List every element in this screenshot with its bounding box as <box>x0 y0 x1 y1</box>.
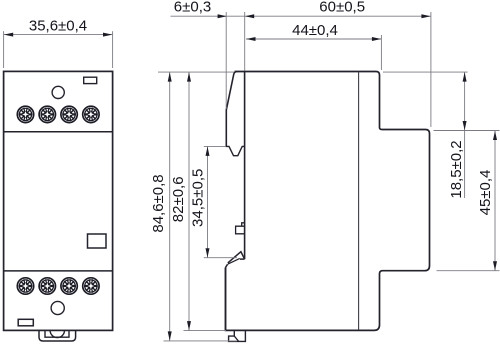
arrow 84,6 top <box>168 72 172 81</box>
bottom screw terminal 3 <box>61 278 77 294</box>
extension line side top right <box>383 71 468 73</box>
dimension line top <box>171 15 431 17</box>
arrow 44 left <box>246 37 255 41</box>
arrow 45 bottom <box>493 261 497 270</box>
svg-text:84,6±0,8: 84,6±0,8 <box>150 174 167 232</box>
extension line claw rear <box>225 12 227 109</box>
side bottom DIN clip diagonal <box>234 336 238 341</box>
front view upper separator line <box>4 131 113 133</box>
svg-text:34,5±0,5: 34,5±0,5 <box>190 169 207 227</box>
front bottom DIN clip outer <box>39 330 76 341</box>
svg-text:60±0,5: 60±0,5 <box>319 0 365 16</box>
extension line side bottom 82 <box>184 330 227 332</box>
svg-text:35,6±0,4: 35,6±0,4 <box>29 17 87 34</box>
svg-text:82±0,6: 82±0,6 <box>170 176 187 222</box>
spring clip tail jog <box>226 264 228 267</box>
dimension line 45 <box>494 131 496 271</box>
extension line 44 right <box>380 35 382 70</box>
extension line step lower <box>437 270 500 272</box>
extension line step upper <box>434 130 500 132</box>
arrow 6 right / 60 left (pointing left) <box>245 14 254 18</box>
svg-text:18,5±0,2: 18,5±0,2 <box>448 140 465 198</box>
arrow 18,5 top <box>463 72 467 81</box>
arrow 6 left (outside, pointing right) <box>218 14 227 18</box>
extension line 34,5 top <box>204 145 226 147</box>
extension line side bottom 84,6 <box>164 340 238 342</box>
interior parting line <box>358 72 360 330</box>
extension line side top left <box>158 71 234 73</box>
top indicator circle <box>52 86 64 98</box>
extension line 60 right <box>430 12 432 127</box>
extension line body left face <box>244 12 246 71</box>
svg-text:44±0,4: 44±0,4 <box>292 22 338 39</box>
extension line 34,5 bottom <box>204 257 237 259</box>
bottom screw terminal 2 <box>39 278 55 294</box>
arrow 18,5 bottom <box>463 121 467 130</box>
side lower-left edge <box>225 268 227 331</box>
bottom indicator circle <box>51 301 64 314</box>
bottom screw terminal 1 <box>17 278 33 294</box>
spring clip junction tick <box>240 258 245 260</box>
svg-text:45±0,4: 45±0,4 <box>477 170 494 216</box>
arrow left 35,6 <box>4 33 13 37</box>
release tab rectangle <box>236 226 245 234</box>
claw notch <box>226 146 245 155</box>
bottom screw terminal 4 <box>83 278 99 294</box>
top screw terminal 3 <box>61 106 77 122</box>
top screw terminal 1 <box>17 106 33 122</box>
top screw terminal 2 <box>39 106 55 122</box>
recess wall line / body left face <box>244 72 246 260</box>
top claw slant <box>226 72 237 147</box>
extension line front left <box>3 31 5 68</box>
spring clip arm lower edge <box>228 258 240 264</box>
bottom left small rectangle <box>18 319 33 326</box>
arrow 82 bottom <box>187 321 191 330</box>
arrow 84,6 bottom <box>168 331 172 340</box>
arrow right 35,6 <box>103 33 112 37</box>
top screw terminal 4 <box>83 106 99 122</box>
spring clip arm upper edge <box>228 252 245 263</box>
top right small rectangle <box>84 77 97 83</box>
arrow 82 top <box>187 72 191 81</box>
side bottom DIN clip <box>229 330 246 341</box>
arrow 45 top <box>493 131 497 140</box>
extension line front right <box>112 31 114 68</box>
front bottom DIN clip inner rect <box>45 330 69 337</box>
front view body outline <box>4 71 113 330</box>
side view main outline <box>226 72 430 331</box>
dimension line 82 <box>188 72 190 331</box>
dimension line 18,5 <box>464 72 466 198</box>
arrow 34,5 bottom <box>206 248 210 257</box>
arrow 60 right (pointing right) <box>421 14 430 18</box>
arrow 34,5 top <box>206 147 210 156</box>
arrow 44 right <box>372 37 381 41</box>
mid right rectangle <box>88 234 107 248</box>
front view lower separator line <box>4 270 113 272</box>
dimension line 44 <box>246 38 381 40</box>
dimension line 35,6 <box>4 34 113 36</box>
dimension line 34,5 <box>207 146 209 257</box>
dimension line 84,6 <box>169 72 171 341</box>
release tab bump <box>242 223 245 226</box>
svg-text:6±0,3: 6±0,3 <box>174 0 211 16</box>
front bottom DIN clip semicircle <box>50 330 64 337</box>
